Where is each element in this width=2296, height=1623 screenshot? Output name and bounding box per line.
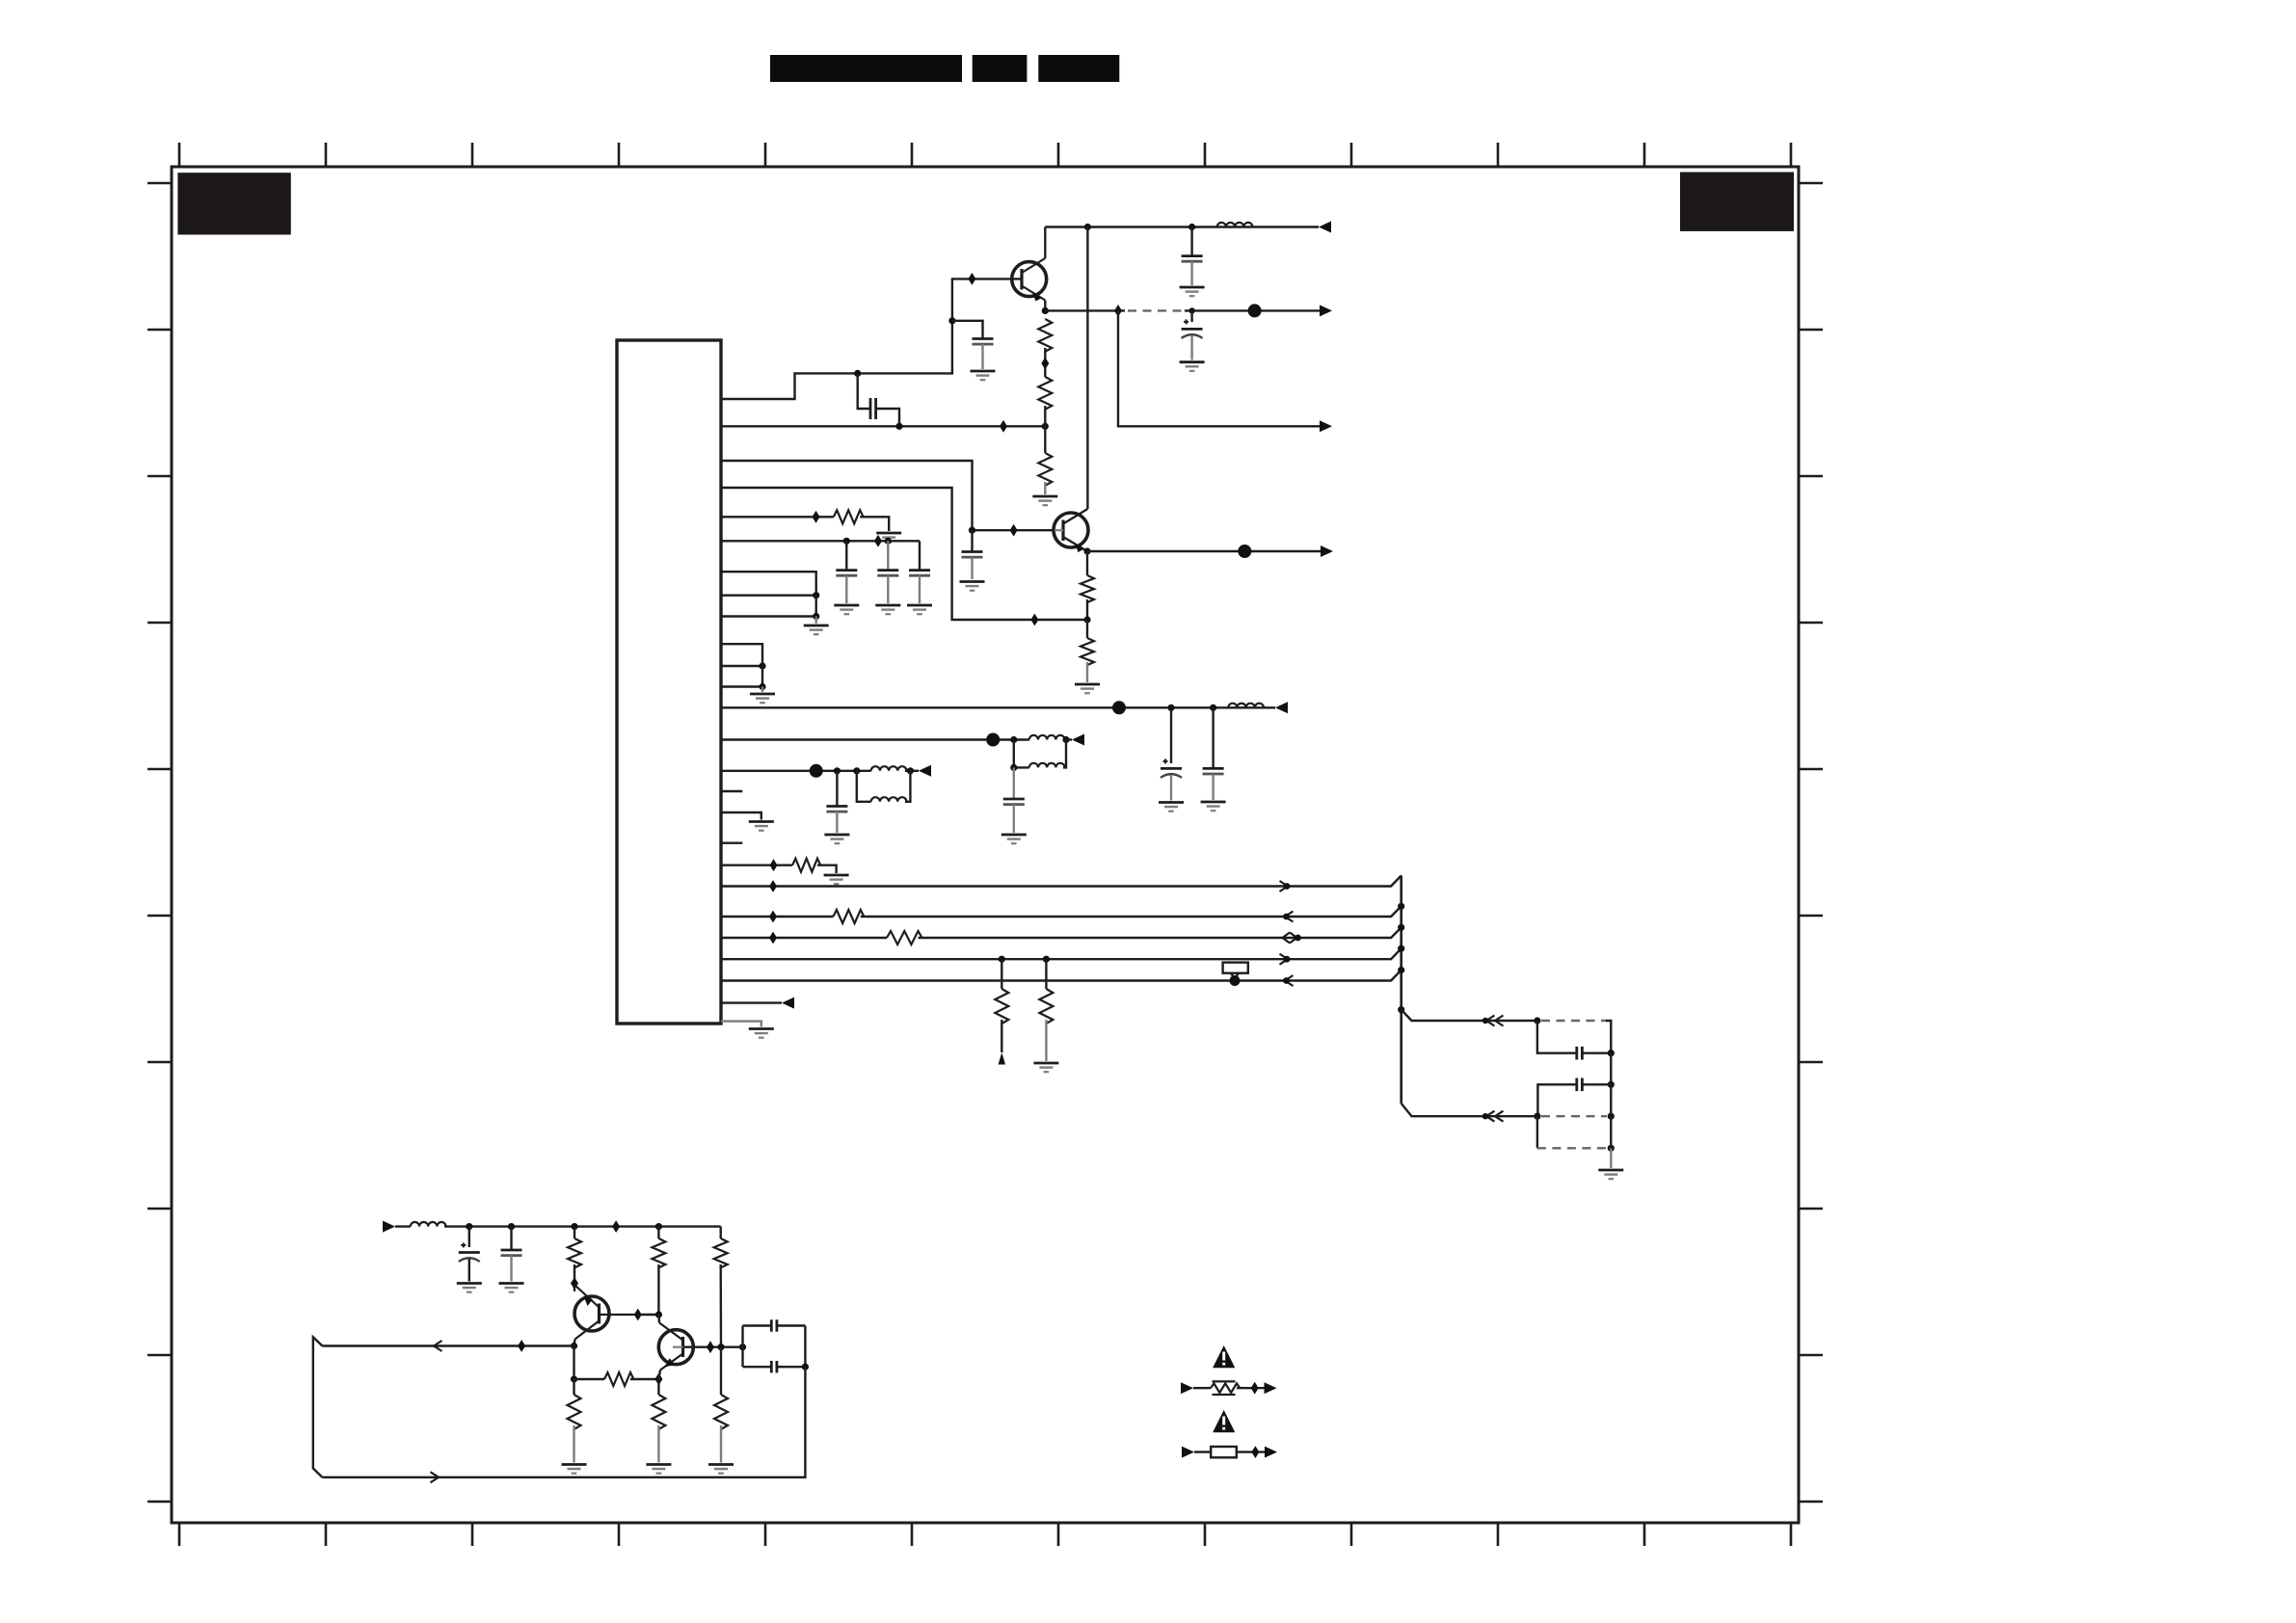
node pin8 join (813, 592, 819, 599)
node L4 tap (1010, 764, 1017, 771)
wire R15 left lead (574, 1378, 605, 1380)
resistor R12 (568, 1238, 581, 1267)
wire pin2 rail (721, 425, 1045, 427)
ruler ticks left (147, 183, 172, 1502)
node rail-chain junction (1042, 423, 1049, 430)
wire loop bracket (313, 1337, 323, 1477)
wire branch to C2 (858, 373, 870, 409)
ground C8 (907, 605, 932, 614)
wire branch to C1 (952, 321, 983, 338)
node Q4 base column (717, 1344, 724, 1350)
ground C12 (824, 835, 849, 843)
wire branch down to out2 (1118, 310, 1320, 426)
node Q3 collector / feedback (571, 1343, 577, 1349)
connector arrow P15 (919, 765, 931, 777)
wire C11 stub (1013, 767, 1015, 798)
chevron feedback (434, 1341, 442, 1351)
wire top supply rail (1045, 226, 1319, 227)
connector arrow P13 (1275, 702, 1288, 713)
wire rail D (721, 948, 1402, 959)
wire R12 drop (574, 1227, 575, 1238)
chevron double out1 (1486, 1016, 1495, 1026)
wire cluster B drop (1536, 1116, 1538, 1148)
wire R4 to node (1086, 599, 1088, 620)
wire C14 row (1537, 1084, 1611, 1116)
capacitor C16 (501, 1250, 522, 1256)
wire Q1 emitter rail (1045, 309, 1125, 311)
wire C16 to ground (510, 1256, 512, 1282)
chevron double out2 (1486, 1111, 1495, 1122)
ground C11 (1001, 835, 1027, 843)
wire Q3 to R15 row (573, 1346, 574, 1380)
node C3 tap (1188, 224, 1195, 230)
wire pin18 stub (721, 842, 742, 844)
inductor L1 (1217, 223, 1253, 227)
resistor R13 (652, 1238, 665, 1267)
node L5 out (907, 767, 914, 774)
title block redaction 3 (1038, 55, 1119, 82)
dashed jumper 3 (1537, 1147, 1607, 1149)
wire pin1 to Q1 base (721, 279, 1022, 399)
wire C8 to ground (919, 575, 921, 603)
node C6 tap (843, 538, 850, 545)
ground R6 (876, 533, 901, 542)
wire C9 to ground (1170, 775, 1172, 801)
inductor L2 (1228, 704, 1264, 708)
ground C10 (1201, 802, 1226, 811)
wire dashed to arrow (1185, 309, 1320, 311)
diamond test point feedback (518, 1340, 525, 1352)
node pin9 join (813, 613, 819, 620)
resistor R6 (834, 510, 864, 523)
wire cluster right mid (1610, 1053, 1612, 1085)
connector arrow pin25 (782, 998, 794, 1009)
node rail A marker (1284, 883, 1291, 890)
capacitor C18 (771, 1361, 777, 1372)
wire pin4 to R4/R5 node (721, 488, 1087, 620)
node R15 left (571, 1375, 577, 1382)
diamond test point P4 (1030, 614, 1038, 626)
wire pin16 stub (721, 790, 742, 792)
supply arrow R10 (999, 1052, 1005, 1065)
wire Q1 collector up (1044, 227, 1046, 259)
wire L3 to arrow (1063, 738, 1072, 740)
ground R7 (824, 875, 849, 884)
node rail B marker (1283, 914, 1290, 920)
wire R5 to ground (1086, 662, 1088, 682)
resistor R3 (1038, 453, 1052, 486)
wire pin26 (721, 1022, 761, 1027)
diamond test point LL rail (612, 1220, 620, 1233)
ruler ticks bottom (179, 1523, 1791, 1546)
capacitor C12 (826, 807, 847, 812)
node R11 tap (1043, 956, 1050, 963)
node L5 tap (853, 767, 860, 774)
resistor R9 (887, 931, 922, 945)
node caps block out (802, 1364, 809, 1370)
wire pin10 (721, 644, 762, 666)
ground C5 (960, 582, 985, 591)
node big P13 (1112, 701, 1126, 714)
diamond test point P19 (770, 859, 778, 871)
ground C4 (1180, 362, 1205, 371)
wire pin8 (721, 595, 816, 597)
wire R11 to ground (1045, 1020, 1047, 1061)
title block redaction 2 (973, 55, 1028, 82)
capacitor C3 (1182, 256, 1203, 262)
wire pin5 (721, 516, 834, 518)
node bus-railC (1398, 924, 1404, 931)
node cluster B (1534, 1113, 1540, 1120)
wire R13 drop (657, 1227, 659, 1238)
ground pins 10-12 (750, 694, 775, 703)
wire R6 to ground (860, 517, 889, 531)
wire cluster right lower (1610, 1084, 1612, 1148)
wire R17 to ground (657, 1425, 659, 1463)
wire rail A (721, 875, 1402, 886)
dashed wire segment (1128, 309, 1185, 311)
node C14 right (1608, 1081, 1615, 1088)
diamond Q4 emitter node (654, 1373, 662, 1386)
resistor R11 (1039, 989, 1053, 1024)
wire node to R5 (1086, 620, 1088, 638)
diamond test point Q1 base (968, 273, 975, 285)
wire R10 to arrow (1001, 1020, 1002, 1052)
wire C15 stub (468, 1227, 470, 1247)
node C15 tap (466, 1223, 472, 1230)
IC U1 main body (617, 340, 721, 1024)
node R12 tap (571, 1223, 577, 1230)
wire C3 stub (1190, 227, 1192, 256)
ground R3 (1032, 496, 1057, 505)
node R10 tap (999, 956, 1005, 963)
node big Q2 rail (1238, 545, 1251, 558)
capacitor C15 polarized (459, 1243, 480, 1263)
wire R12 to Q3 (574, 1264, 575, 1291)
wire C5 stub (971, 530, 973, 551)
resistor R16 (568, 1395, 581, 1429)
node jumper3 right (1608, 1145, 1615, 1152)
node bus-railE (1398, 967, 1404, 973)
wire R17 drop (657, 1379, 659, 1395)
ground cluster (1598, 1170, 1623, 1179)
chevron bottom return (431, 1472, 440, 1482)
wire C7 stub (887, 541, 889, 570)
warning triangle 2 (1213, 1410, 1235, 1432)
inductor L6 (871, 797, 907, 802)
wire bottom return (322, 1367, 805, 1477)
wire bus to out rail 1 (1402, 1010, 1537, 1021)
node C12 tap (834, 767, 841, 774)
node L3 tap (1010, 736, 1017, 743)
wire C7 to ground (887, 575, 889, 603)
node out2 marker (1482, 1113, 1488, 1119)
wire caps block right (804, 1326, 806, 1368)
wire bus vertical (1400, 875, 1402, 1104)
capacitor C17 (771, 1319, 777, 1331)
wire pin6 (721, 540, 920, 542)
ground C7 (875, 605, 900, 614)
ground R11 (1033, 1063, 1058, 1072)
capacitor C7 (877, 571, 898, 576)
node out1 marker (1482, 1018, 1488, 1024)
capacitor C4 polarized (1182, 319, 1203, 338)
resistor R1 (1038, 319, 1052, 352)
wire rail B (721, 906, 1402, 917)
resistor R18 (714, 1395, 728, 1429)
wire R18 to ground (720, 1425, 722, 1463)
wire R3 to ground (1044, 482, 1046, 494)
resistor R5 (1081, 638, 1094, 665)
wire pin11 (721, 665, 762, 667)
node L3 out (1062, 736, 1069, 743)
ground C15 (457, 1284, 482, 1292)
node rail E marker (1283, 977, 1290, 984)
inductor L3 (1029, 735, 1065, 740)
ruler ticks right (1799, 183, 1823, 1502)
resistor R8 (833, 910, 864, 923)
wire C10 to ground (1212, 774, 1214, 800)
wire C9 stub (1170, 707, 1172, 763)
grid label box top-right (1680, 173, 1794, 231)
node Q1 emitter (1042, 307, 1049, 314)
wire C3 to ground (1190, 261, 1192, 285)
resistor R10 (995, 989, 1008, 1024)
node C2-rail junction (895, 423, 902, 430)
capacitor C1 (973, 339, 994, 345)
node big P15 (810, 764, 823, 778)
capacitor C9 polarized (1161, 758, 1182, 778)
legend fuse row (1182, 1446, 1277, 1458)
node rail C marker (1295, 935, 1301, 942)
dashed jumper 2 (1541, 1115, 1607, 1117)
wire C13 row (1537, 1021, 1611, 1053)
inductor L7 (411, 1222, 446, 1227)
node C10 tap (1210, 705, 1216, 711)
wire R16 to ground (573, 1425, 574, 1463)
wire pin12 (721, 685, 762, 687)
wire jumper1 corner (1606, 1021, 1611, 1053)
wire Q2 emitter to R4 (1086, 551, 1088, 575)
node on pin1 wire (854, 370, 861, 377)
resistor R2 (1038, 377, 1052, 410)
wire R15 right lead (630, 1378, 658, 1380)
wire R14 to Q4 base node (720, 1264, 723, 1347)
capacitor C2 series (870, 398, 876, 419)
node C13 right (1608, 1050, 1615, 1056)
wire LL rail corner drop (720, 1227, 722, 1238)
wire Q3 base to node (638, 1314, 659, 1316)
wire rail C (721, 927, 1402, 938)
wire Q4 collector (657, 1315, 660, 1323)
ground R17 (646, 1465, 671, 1474)
wire R13 to node (657, 1264, 659, 1315)
wire join to ground 2 (761, 687, 763, 693)
inductor L5 (871, 766, 907, 771)
chevron out rail A (1280, 881, 1289, 891)
transistor Q2 (1054, 509, 1088, 552)
transistor Q4 (658, 1323, 693, 1370)
border frame (172, 167, 1799, 1523)
ground R16 (562, 1465, 587, 1474)
ground C1 (971, 371, 996, 380)
wire pin15 rail (721, 770, 871, 772)
node C9 tap (1167, 705, 1174, 711)
wire C1 to ground (981, 344, 983, 369)
node at P1 branch (948, 317, 955, 324)
ground pins 7-9 (804, 625, 829, 634)
wire C10 stub (1212, 707, 1214, 768)
diamond test point Q4 base (707, 1341, 714, 1353)
connector arrow out right 2 (1320, 420, 1332, 432)
wire C15 to ground (468, 1259, 470, 1282)
capacitor C14 (1577, 1078, 1583, 1092)
wire rail E (721, 971, 1402, 981)
wire pin25 (721, 1001, 782, 1003)
ground R5 (1075, 684, 1100, 693)
wire Q2 collector up (1086, 227, 1088, 510)
node R4/R5 (1083, 616, 1090, 623)
resistor R15 (604, 1372, 633, 1386)
capacitor C6 (836, 571, 857, 576)
resistor R4 (1081, 575, 1094, 602)
ground pin17 (749, 822, 774, 831)
wire L6 lower loop (857, 771, 911, 802)
diamond test point Q3 emitter (571, 1277, 578, 1290)
diamond test point emitter rail (1114, 305, 1122, 317)
wire C6 to ground (845, 575, 847, 603)
wire Q2 emitter rail (1087, 550, 1321, 552)
ground C9 (1159, 803, 1184, 811)
capacitor C8 (909, 571, 930, 576)
wire caps block left (741, 1326, 743, 1368)
transistor Q3 (574, 1285, 638, 1340)
wire LL top rail (395, 1225, 721, 1227)
wire Q4 base right (683, 1345, 743, 1347)
capacitor C10 (1203, 768, 1224, 774)
wire feedback left (322, 1344, 574, 1346)
wire R2 to node (1044, 406, 1046, 426)
ground pin26 (749, 1029, 774, 1038)
wire C8 stub (919, 541, 921, 570)
chevron out rail D (1280, 954, 1289, 965)
node R13 tap (655, 1223, 662, 1230)
wire Q3 collector drop (574, 1340, 575, 1346)
wire L5 to arrow (905, 770, 919, 772)
diamond test point Q3 base (634, 1309, 642, 1321)
node C4 tap (1188, 307, 1194, 313)
resistor R14 (714, 1238, 728, 1267)
node big emitter rail (1248, 304, 1262, 317)
wire C6 stub (845, 541, 847, 570)
wire L4 lower loop (1014, 740, 1066, 768)
ground C6 (834, 605, 859, 614)
wire pin14 rail (721, 738, 1029, 740)
legend safety resistor row (1181, 1381, 1277, 1395)
node bus-railD (1398, 945, 1404, 952)
wire R1-R2 (1044, 348, 1046, 377)
capacitor C5 (962, 552, 983, 558)
resistor R17 (652, 1395, 665, 1429)
capacitor C11 (1003, 799, 1025, 805)
wire C12 to ground (836, 811, 838, 833)
wire R10 drop (1001, 959, 1002, 989)
wire C18 row (743, 1366, 806, 1368)
wire bus to out rail 2 (1402, 1104, 1537, 1116)
wire C4 to ground (1190, 335, 1192, 360)
node big P14 (986, 733, 1000, 747)
wire C2 to rail (876, 409, 899, 426)
connector arrow in LL (383, 1221, 395, 1233)
wire Q4 emitter drop (658, 1370, 660, 1380)
dashed jumper 1 (1541, 1020, 1606, 1022)
transistor Q1 (1012, 258, 1047, 302)
grid label box top-left (177, 173, 290, 234)
wire pin17 (721, 812, 761, 820)
wire C12 stub (836, 771, 838, 806)
diamond test point rail A (769, 880, 777, 892)
wire R7 to ground (817, 865, 837, 873)
node C7 tap (885, 538, 892, 545)
chevron in rail E (1285, 975, 1294, 986)
diamond test point rail C (769, 932, 777, 945)
node pin12 join (759, 683, 765, 690)
diamond test point R1/R2 (1041, 358, 1049, 370)
capacitor C13 (1577, 1047, 1583, 1060)
node pin11 join (759, 662, 765, 669)
node Q2 collector tap (1084, 224, 1091, 230)
wire C16 stub (510, 1227, 512, 1250)
node Q2 base branch (969, 527, 975, 534)
wire R18 drop (720, 1347, 722, 1395)
connector arrow out right 3 (1321, 545, 1333, 557)
node big rail E (1230, 975, 1241, 986)
ground R18 (708, 1465, 734, 1474)
node Q3 base / Q4 collector (655, 1311, 662, 1317)
wire R16 drop (573, 1379, 574, 1395)
wire pin11-12 join (761, 666, 763, 687)
wire pin13 rail (721, 706, 1275, 708)
wire join to ground (815, 617, 817, 625)
node C16 tap (508, 1223, 515, 1230)
wire pin9 (721, 615, 816, 617)
node rail D marker (1284, 956, 1291, 963)
wire cluster to ground (1610, 1148, 1612, 1168)
node bus-railB (1398, 903, 1404, 910)
wire Q1 emitter node (1044, 301, 1046, 311)
ground C16 (499, 1284, 524, 1292)
wire C5 to ground (971, 557, 973, 579)
wire pin7 (721, 572, 816, 596)
ground C3 (1180, 287, 1205, 296)
wire C17 row (743, 1324, 806, 1326)
connector arrow out right 1 (1320, 305, 1332, 316)
wire C4 stub (1190, 310, 1192, 322)
diamond test point rail B (769, 911, 777, 923)
wire pin8-pin9 join (815, 596, 817, 617)
diamond test point P2 (1000, 420, 1007, 433)
wire C11 to ground (1013, 805, 1015, 833)
node cluster A (1534, 1017, 1540, 1024)
diamond test point Q2 base (1010, 524, 1018, 537)
node caps block left (739, 1344, 746, 1350)
fusible link box F1 (1223, 963, 1248, 979)
warning triangle 1 (1213, 1345, 1235, 1368)
diamond test point P6 (874, 535, 882, 547)
wire node to R3 (1044, 426, 1046, 453)
connector arrow top rail (1319, 222, 1331, 233)
chevron pair rail C (1283, 933, 1291, 944)
